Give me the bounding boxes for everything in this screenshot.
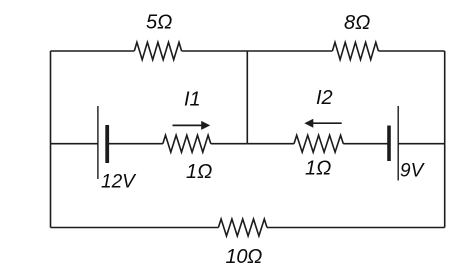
wire top-middle: between 5-ohm and 8-ohm resistors [182, 50, 333, 52]
label 8 ohm [344, 12, 370, 34]
wire bottom-right: bottom rail from 10-ohm resistor to right corner [267, 227, 445, 229]
battery V1 12V long thin plate [97, 106, 99, 179]
wire: left rail to 12V battery negative plate [51, 143, 98, 145]
resistor 10 ohm [218, 219, 267, 236]
wire top-left: top rail from left corner to 5-ohm resistor [51, 50, 135, 52]
svg-text:1Ω: 1Ω [186, 161, 212, 183]
svg-text:10Ω: 10Ω [226, 246, 263, 268]
label 5 ohm [146, 12, 172, 34]
wire right branch: right rail from top corner to bottom corner [444, 51, 446, 228]
label 10 ohm [226, 246, 263, 268]
svg-text:1Ω: 1Ω [305, 157, 331, 179]
wire: 9V battery to right rail [398, 143, 445, 145]
svg-text:8Ω: 8Ω [344, 12, 370, 34]
resistor 1 ohm (right) [294, 135, 343, 152]
resistor 1 ohm (left) [163, 135, 211, 152]
current arrow I1 (pointing right) [173, 121, 211, 130]
wire left branch: left rail from top corner to bottom corner [50, 51, 52, 228]
svg-text:I1: I1 [184, 89, 201, 111]
battery V1 12V short thick plate [105, 125, 109, 163]
battery V2 9V short thick plate [387, 126, 391, 162]
label 1 ohm (left) [186, 161, 212, 183]
wire: 12V battery to left 1-ohm resistor [107, 143, 163, 145]
label 1 ohm (right) [305, 157, 331, 179]
label 12V [101, 171, 137, 192]
resistor 8 ohm [332, 42, 378, 59]
svg-text:12V: 12V [101, 171, 137, 192]
svg-text:I2: I2 [316, 87, 333, 109]
wire middle branch: vertical wire from top rail down to node between the two 1-ohm resistors [246, 51, 248, 144]
battery V2 9V long thin plate [397, 106, 399, 181]
label I1 [184, 89, 201, 111]
wire top-right: top rail from 8-ohm resistor to right corner [378, 50, 444, 52]
label I2 [316, 87, 333, 109]
wire: right 1-ohm resistor to 9V battery thick plate [343, 143, 389, 145]
svg-text:5Ω: 5Ω [146, 12, 172, 34]
current arrow I2 (pointing left) [304, 119, 341, 128]
svg-text:9V: 9V [400, 161, 426, 182]
label 9V [400, 161, 426, 182]
wire: middle node to right 1-ohm resistor [247, 143, 294, 145]
wire bottom-left: bottom rail from left corner to 10-ohm resistor [51, 227, 219, 229]
resistor 5 ohm [134, 42, 181, 59]
wire: left 1-ohm resistor to middle node [211, 143, 248, 145]
